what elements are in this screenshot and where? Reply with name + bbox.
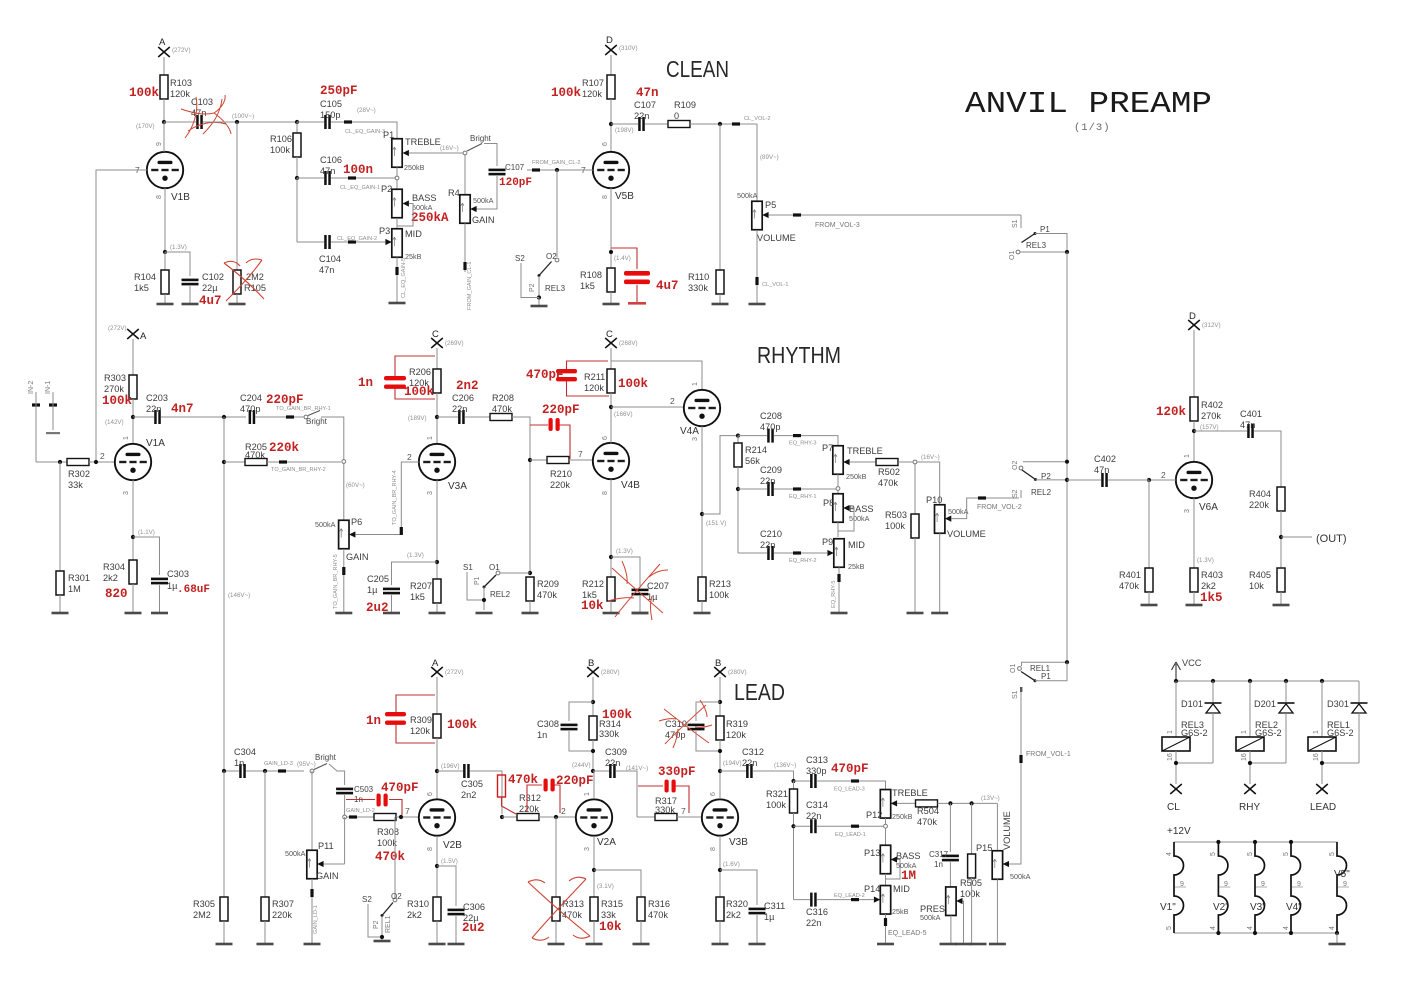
wire R502 to node (16V~)	[898, 454, 940, 464]
resistor R206 120k (100k red)	[404, 367, 441, 399]
wire grid node to R308 net GAIN_LD-2	[346, 808, 375, 819]
svg-text:P11: P11	[318, 841, 334, 851]
wire node D to R402	[1193, 330, 1195, 397]
svg-text:R404: R404	[1249, 489, 1271, 499]
svg-text:GAIN: GAIN	[346, 552, 368, 562]
svg-text:V4A: V4A	[680, 426, 699, 437]
svg-text:100k: 100k	[618, 377, 649, 391]
svg-text:R211: R211	[584, 372, 605, 382]
potentiometer P6 GAIN 500kA	[315, 517, 368, 562]
wire C503 to grid line junction	[343, 795, 347, 819]
P8 wiper loop to P9	[838, 505, 854, 537]
svg-text:100k: 100k	[960, 889, 980, 899]
relay switch REL3 (clean mute): O2 contact	[546, 252, 559, 262]
resistor R211 120k (100k red)	[584, 369, 649, 393]
svg-text:3: 3	[427, 491, 434, 495]
svg-text:500kA: 500kA	[285, 849, 306, 858]
resistor R504 470k	[916, 800, 939, 827]
ground heater bus	[1329, 933, 1346, 945]
svg-text:G6S-2: G6S-2	[1327, 728, 1354, 738]
P9 bottom stub net EQ_RHY-5	[831, 567, 841, 612]
svg-text:C205: C205	[367, 574, 389, 584]
svg-text:500kA: 500kA	[920, 913, 941, 922]
capacitor C105 150p (250pF red)	[320, 84, 358, 129]
P5 bottom stub net CL_VOL-1	[755, 230, 788, 303]
resistor R105 2M2 (deleted)	[233, 270, 266, 294]
svg-text:9: 9	[156, 142, 163, 146]
svg-text:100k: 100k	[551, 86, 582, 100]
svg-text:R107: R107	[582, 78, 604, 88]
heater V4"	[1283, 842, 1303, 933]
ground R108	[603, 292, 620, 305]
svg-text:10k: 10k	[581, 599, 604, 613]
wire V1A cathode to node (1.1V)	[131, 480, 155, 560]
potentiometer P1 TREBLE 250kB	[383, 130, 441, 172]
svg-text:220k: 220k	[1249, 500, 1269, 510]
svg-text:470pF: 470pF	[831, 762, 869, 776]
P13 bottom	[885, 874, 887, 886]
svg-text:V2": V2"	[1213, 902, 1229, 913]
svg-text:470k: 470k	[375, 850, 406, 864]
svg-text:1: 1	[427, 436, 434, 440]
svg-text:6: 6	[602, 142, 609, 146]
resistor R315 33k (10k red)	[590, 897, 623, 934]
wire C305 to R312 column	[470, 771, 502, 814]
capacitor C313 330p (470pF red) line EQ_LEAD-3	[794, 755, 869, 788]
svg-text:500kA: 500kA	[473, 196, 494, 205]
svg-text:1M: 1M	[901, 869, 916, 883]
wire C206 to R208	[465, 416, 490, 418]
svg-text:R207: R207	[410, 581, 432, 591]
wire CL_VOL-2 to P5 top (89V~)	[757, 124, 779, 201]
ground R305	[216, 921, 233, 945]
svg-text:100n: 100n	[343, 163, 373, 177]
svg-text:(28V~): (28V~)	[357, 107, 376, 114]
svg-text:4u7: 4u7	[199, 294, 222, 308]
P13 wiper loop to P14	[886, 856, 901, 885]
wire P2 contact to bus	[1031, 478, 1069, 497]
wire R205 to P6 top node, net TO_GAIN_BR_RHY-2	[267, 460, 346, 473]
svg-text:S2: S2	[1012, 489, 1019, 498]
red capacitor 470pF across R211	[526, 361, 609, 396]
svg-text:R316: R316	[648, 899, 670, 909]
svg-text:500kA: 500kA	[315, 520, 336, 529]
svg-text:16: 16	[1167, 753, 1174, 761]
svg-text:470k: 470k	[492, 404, 512, 414]
wire node A to R103	[163, 57, 165, 75]
wire plate node to C309, label (244V)	[572, 762, 609, 771]
svg-text:250kB: 250kB	[846, 472, 867, 481]
svg-text:470pF: 470pF	[381, 781, 419, 795]
svg-text:Bright: Bright	[306, 417, 328, 426]
svg-text:MID: MID	[893, 884, 910, 894]
svg-text:7: 7	[578, 449, 583, 459]
node A rhythm (272V)	[108, 325, 147, 342]
tube V5B	[581, 142, 634, 202]
ground P6	[335, 612, 352, 615]
svg-text:Bright: Bright	[315, 753, 337, 762]
wire C208 to P7 top	[774, 434, 838, 447]
svg-text:9: 9	[1261, 881, 1265, 888]
ground R505	[970, 878, 987, 945]
wire V2B cathode to node (1.5V)	[435, 836, 458, 897]
svg-text:TO_GAIN_BR_RHY-1: TO_GAIN_BR_RHY-1	[276, 406, 331, 412]
wire supply line to P15 top	[996, 803, 998, 852]
svg-text:P15: P15	[976, 843, 992, 853]
capacitor C206 22n (2n2 red)	[452, 379, 479, 424]
svg-text:R106: R106	[270, 134, 292, 144]
potentiometer P2 BASS 500kA (250kA red)	[381, 180, 449, 225]
svg-text:(1/3): (1/3)	[1074, 122, 1111, 134]
svg-text:8: 8	[710, 847, 717, 851]
svg-text:C317: C317	[929, 850, 949, 859]
svg-text:(310V): (310V)	[619, 45, 638, 52]
svg-text:120k: 120k	[584, 383, 604, 393]
capacitor C309 22n	[605, 747, 627, 778]
svg-text:TO_GAIN_BR_RHY-4: TO_GAIN_BR_RHY-4	[392, 470, 398, 525]
svg-text:1: 1	[123, 436, 130, 440]
svg-text:P7: P7	[822, 443, 833, 453]
resistor R404 220k	[1249, 487, 1285, 511]
svg-text:GAIN_LD-3: GAIN_LD-3	[264, 761, 293, 767]
svg-text:6: 6	[427, 792, 434, 796]
red capacitor 330pF across R317	[638, 765, 696, 813]
tube V6A	[1176, 454, 1218, 513]
svg-text:C106: C106	[320, 155, 342, 165]
svg-text:47n: 47n	[1240, 420, 1255, 430]
ground R104	[157, 294, 174, 305]
ground R301	[52, 595, 69, 614]
resistor R313 470k (deleted)	[552, 817, 584, 921]
resistor R104 1k5	[134, 252, 169, 294]
wire cathode node to C102	[165, 252, 190, 276]
wire R107 to anode node (198V)	[609, 99, 634, 152]
PRES wiper to ground	[955, 898, 972, 945]
wire C310 to R319 bottom	[696, 731, 720, 751]
tube V4B	[593, 436, 640, 495]
svg-text:(142V): (142V)	[105, 419, 124, 426]
wire node to C105	[297, 121, 324, 123]
wire grid junction down to mute switch O2	[556, 170, 558, 257]
svg-text:R504: R504	[917, 806, 939, 816]
svg-text:2: 2	[100, 451, 105, 461]
svg-text:(244V): (244V)	[572, 762, 591, 769]
svg-text:2M2: 2M2	[193, 910, 211, 920]
svg-text:100k: 100k	[377, 838, 397, 848]
ground R315	[586, 921, 603, 945]
heater V3"	[1247, 842, 1267, 933]
node D (310V)	[605, 35, 637, 55]
svg-text:REL2: REL2	[490, 590, 511, 599]
svg-text:P2: P2	[529, 283, 536, 292]
P14 bottom stub net EQ_LEAD-5	[884, 914, 927, 943]
R4 wiper	[470, 206, 476, 212]
svg-text:10k: 10k	[599, 920, 622, 934]
svg-text:BASS: BASS	[849, 504, 874, 514]
wire C312 to tone stack column (136V~)	[753, 762, 796, 781]
ground P11	[304, 943, 321, 946]
wire node A to R309	[436, 677, 438, 715]
svg-text:16: 16	[1241, 753, 1248, 761]
svg-text:FROM_VOL-2: FROM_VOL-2	[977, 504, 1022, 511]
svg-text:FROM_VOL-1: FROM_VOL-1	[1026, 751, 1071, 758]
wire R317 to V3B grid pin 7	[677, 806, 701, 817]
wire P5 wiper to S1 net FROM_VOL-3	[769, 213, 1021, 229]
heater V5"	[1329, 842, 1350, 933]
svg-text:330p: 330p	[806, 766, 826, 776]
svg-text:C305: C305	[461, 779, 483, 789]
svg-text:(1.3V): (1.3V)	[170, 244, 187, 251]
svg-text:500kA: 500kA	[1010, 872, 1031, 881]
wire bright to C107 bypass cap	[484, 144, 497, 167]
wire node C to R211 and V4A plate	[611, 348, 702, 390]
svg-text:R505: R505	[960, 878, 982, 888]
resistor R402 270k (120k red)	[1156, 397, 1223, 421]
resistor R213 100k	[698, 577, 731, 601]
relay switch REL3 select: S1 stub	[1012, 215, 1021, 228]
svg-text:P1: P1	[474, 576, 481, 585]
potentiometer P7 TREBLE 250kB	[822, 443, 883, 481]
svg-text:(13V~): (13V~)	[981, 795, 1000, 802]
REL2 mute lever	[474, 575, 496, 589]
svg-text:1n: 1n	[366, 714, 381, 728]
wire C203 to junction	[161, 415, 246, 419]
svg-text:R309: R309	[410, 715, 432, 725]
wire V5B grid line net FROM_GAIN_CL-2	[527, 160, 593, 172]
svg-text:FROM_VOL-3: FROM_VOL-3	[815, 222, 860, 229]
ground R213	[694, 601, 711, 614]
svg-text:100k: 100k	[709, 590, 729, 600]
svg-text:O2: O2	[1012, 461, 1019, 470]
svg-text:O2: O2	[391, 892, 402, 901]
resistor R401 470k	[1119, 480, 1153, 592]
heater bottom bus	[1174, 931, 1339, 935]
resistor R314 330k (100k red)	[589, 708, 633, 740]
svg-text:(3.1V): (3.1V)	[597, 883, 614, 890]
svg-text:(157V): (157V)	[1200, 424, 1219, 431]
svg-text:P8: P8	[823, 498, 834, 508]
svg-text:CL_EQ_GAIN-3: CL_EQ_GAIN-3	[345, 129, 385, 135]
ground R209	[522, 601, 539, 614]
svg-text:(16V~): (16V~)	[921, 454, 940, 461]
wire P1 bottom to junction	[395, 167, 399, 180]
P2 wiper	[403, 200, 409, 206]
svg-text:C402: C402	[1094, 454, 1116, 464]
ground C207	[632, 612, 649, 615]
wire V4A cathode node to tone stack	[702, 436, 738, 514]
wire C106 to P1/P2 junction, net CL_EQ_GAIN-1	[331, 176, 397, 191]
svg-text:220k: 220k	[519, 804, 539, 814]
svg-text:220pF: 220pF	[542, 403, 580, 417]
svg-text:CLEAN: CLEAN	[666, 56, 729, 82]
svg-text:BASS: BASS	[412, 193, 437, 203]
capacitor C210 22n line EQ_RHY-2	[738, 529, 782, 560]
svg-text:16: 16	[1313, 753, 1320, 761]
resistor R210 220k	[547, 457, 572, 491]
svg-text:(89V~): (89V~)	[760, 154, 779, 161]
svg-text:R105: R105	[244, 283, 266, 293]
red capacitor 220pF across R312	[527, 774, 594, 813]
svg-text:V1B: V1B	[171, 192, 190, 203]
svg-text:+12V: +12V	[1167, 826, 1191, 837]
svg-text:470p: 470p	[240, 404, 260, 414]
svg-text:P5: P5	[765, 200, 776, 210]
svg-text:22n: 22n	[806, 811, 821, 821]
capacitor C402 47n	[1094, 454, 1149, 487]
svg-text:EQ_LEAD-3: EQ_LEAD-3	[834, 787, 865, 793]
terminal X LEAD	[1310, 784, 1336, 813]
node C second (268V)	[605, 329, 637, 348]
svg-text:250kB: 250kB	[404, 163, 425, 172]
wire plate node to V2A top	[593, 771, 595, 799]
REL3 S2 branch	[515, 254, 539, 298]
capacitor C312 22n	[742, 747, 764, 778]
svg-text:MID: MID	[405, 229, 422, 239]
svg-text:CL_EQ_GAIN-2: CL_EQ_GAIN-2	[337, 236, 377, 242]
red capacitor 470pF lead bright mod	[346, 781, 419, 815]
P7 wiper	[843, 459, 849, 465]
svg-text:22n: 22n	[605, 758, 620, 768]
resistor R214 56k	[734, 436, 767, 467]
svg-text:V5B: V5B	[615, 191, 634, 202]
svg-text:22n: 22n	[634, 111, 649, 121]
svg-text:500kA: 500kA	[849, 514, 870, 523]
capacitor C106 47n (100n red)	[297, 155, 373, 185]
svg-text:R319: R319	[726, 719, 748, 729]
potentiometer P14 MID 25kB	[864, 884, 910, 916]
ground P14	[877, 943, 894, 946]
svg-text:P10: P10	[926, 495, 942, 505]
svg-text:220pF: 220pF	[556, 774, 594, 788]
wire R504 to heater supply line (13V~)	[938, 795, 1000, 806]
svg-text:330pF: 330pF	[658, 765, 696, 779]
resistor R403 2k2 (1k5 red)	[1190, 568, 1223, 605]
relay select REL1: S1 contact	[1012, 687, 1022, 699]
wire R208 to V4B grid column	[512, 417, 530, 573]
lead tone stack: junction and R321	[791, 779, 795, 789]
svg-text:500kA: 500kA	[948, 507, 969, 516]
svg-text:CL_EQ_GAIN-1: CL_EQ_GAIN-1	[340, 185, 380, 191]
wire V3A cathode to node (1.3V)	[407, 480, 439, 579]
svg-text:(136V~): (136V~)	[774, 762, 796, 769]
resistor R316 470k	[637, 897, 670, 921]
svg-text:6: 6	[602, 436, 609, 440]
svg-text:(1.6V): (1.6V)	[723, 861, 740, 868]
svg-text:V3": V3"	[1250, 902, 1266, 913]
P15 wiper to FROM_VOL-1	[1003, 688, 1071, 867]
svg-text:P9: P9	[822, 537, 833, 547]
ground R316	[633, 921, 650, 945]
wire R402 to anode node (157V)	[1192, 421, 1219, 462]
svg-text:8: 8	[427, 847, 434, 851]
svg-text:R214: R214	[745, 445, 767, 455]
svg-text:R401: R401	[1119, 570, 1141, 580]
wire anode node to C206	[437, 416, 458, 418]
svg-text:R4: R4	[448, 188, 460, 198]
svg-text:B: B	[715, 658, 721, 669]
svg-text:(151 V): (151 V)	[706, 520, 726, 527]
svg-text:P12: P12	[866, 810, 882, 820]
capacitor C311 1u	[720, 870, 785, 922]
wire bright lever to C503	[329, 764, 345, 785]
REL3 coil bottom to CL output	[1167, 751, 1178, 784]
svg-text:C210: C210	[760, 529, 782, 539]
svg-text:C103: C103	[191, 97, 213, 107]
svg-text:(198V): (198V)	[615, 127, 634, 134]
wire x297 C106 line to C104 line	[296, 178, 298, 242]
svg-text:22n: 22n	[452, 404, 467, 414]
REL1 mute lever	[373, 903, 393, 930]
svg-text:C206: C206	[452, 393, 474, 403]
wire (16V~) node to P10 top	[917, 462, 940, 505]
svg-text:CL_VOL-1: CL_VOL-1	[762, 282, 788, 288]
wire C204 to bright switch, net TO_GAIN_BR_RHY-1	[255, 406, 330, 419]
ground P9	[831, 612, 848, 615]
potentiometer P15 VOLUME 500kA	[976, 811, 1031, 881]
wire node B to R314	[591, 677, 595, 716]
svg-text:1: 1	[692, 382, 699, 386]
svg-text:100k: 100k	[602, 708, 633, 722]
wire C313 to P12 top	[817, 779, 886, 792]
P3 bottom stub with tick, net CL_EQ_GAIN-5	[395, 257, 407, 302]
wire V3B cathode to node (1.6V)	[718, 836, 740, 897]
resistor R109 0	[668, 100, 696, 128]
svg-text:R210: R210	[550, 469, 572, 479]
wire R106 to C106 line	[295, 157, 299, 180]
wire V2A cathode to node (3.1V)	[592, 836, 614, 897]
svg-text:S1: S1	[1012, 219, 1019, 228]
wire C401 to R404 column	[1254, 431, 1281, 487]
ground R313	[548, 921, 565, 945]
resistor R321 100k	[766, 789, 798, 813]
svg-text:R321: R321	[766, 789, 788, 799]
svg-text:(312V): (312V)	[1202, 322, 1221, 329]
svg-text:C: C	[606, 329, 613, 340]
wire R211 to V4B plate node (166V)	[609, 393, 633, 443]
ground P3	[389, 302, 406, 305]
svg-text:22n: 22n	[742, 758, 757, 768]
tube V1A	[115, 436, 165, 495]
bright switch rhythm: pivot	[304, 411, 328, 427]
svg-text:3: 3	[584, 847, 591, 851]
svg-text:RHYTHM: RHYTHM	[757, 342, 841, 368]
svg-text:(60V~): (60V~)	[346, 482, 365, 489]
relay coil REL1 G6S-2	[1308, 681, 1354, 751]
resistor R505 100k	[960, 803, 982, 899]
svg-text:P2: P2	[373, 920, 380, 929]
svg-text:REL2: REL2	[1031, 488, 1052, 497]
capacitor C104 47n	[297, 235, 341, 275]
ground R403	[1186, 592, 1203, 606]
svg-text:GAIN: GAIN	[316, 871, 338, 881]
capacitor C107 1n bright (120pF red)	[489, 163, 533, 189]
resistor R302 33k	[67, 459, 90, 491]
svg-text:GAIN_LD-2: GAIN_LD-2	[346, 808, 375, 814]
relay coil REL2 G6S-2	[1236, 681, 1282, 751]
svg-text:Bright: Bright	[470, 134, 492, 143]
svg-text:P1: P1	[1040, 225, 1050, 234]
wire V1B plate to anode node	[163, 122, 165, 152]
P15 bottom	[989, 879, 1006, 945]
potentiometer P9 MID 25kB	[822, 537, 865, 571]
svg-text:R209: R209	[537, 579, 559, 589]
potentiometer P13 BASS 500kA (1M red)	[864, 828, 921, 883]
svg-text:R403: R403	[1201, 570, 1223, 580]
V3A grid wire to P6 wiper net TO_GAIN_BR_RHY-4	[400, 452, 419, 535]
resistor R301 1M	[56, 462, 90, 595]
potentiometer P8 BASS 500kA	[823, 491, 874, 524]
svg-text:A: A	[159, 37, 166, 48]
